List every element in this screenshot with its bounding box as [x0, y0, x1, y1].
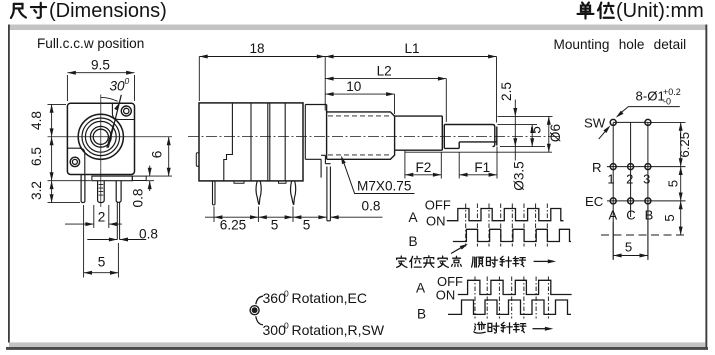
svg-text:0: 0: [284, 289, 289, 299]
bushing thread dashed lines: [328, 115, 390, 117]
mounting grid right vertical: [647, 122, 649, 259]
svg-text:3: 3: [643, 172, 650, 187]
svg-text:R: R: [592, 160, 602, 175]
dim L2: [445, 79, 447, 122]
svg-text:EC: EC: [585, 194, 604, 209]
top row extension: [648, 121, 686, 123]
rotation bullet: [249, 305, 259, 315]
group2 waveform B: [448, 300, 571, 314]
right dims 6.25 / 5 / 5: [680, 122, 682, 235]
svg-text:M7X0.75: M7X0.75: [357, 179, 411, 194]
title 单位(Unit):mm: [578, 3, 614, 19]
svg-text:4.8: 4.8: [29, 111, 44, 130]
mounting grid left vertical: [612, 122, 614, 259]
svg-text:Full.c.c.w position: Full.c.c.w position: [37, 36, 144, 51]
svg-text:5: 5: [625, 240, 632, 255]
group1 detent dash-dot lines: [466, 204, 548, 247]
hole EC B: [645, 198, 651, 204]
shaft section dia 6: [395, 116, 445, 150]
svg-text:2.5: 2.5: [499, 82, 514, 101]
shaft D-flat indicator line: [108, 95, 121, 148]
svg-text:6: 6: [150, 151, 165, 159]
extension lines right of shaft: [498, 116, 553, 146]
mounting grid top row line SW: [613, 121, 648, 123]
svg-text:+0.2: +0.2: [663, 87, 681, 97]
svg-text:F2: F2: [415, 160, 431, 175]
svg-text:18: 18: [249, 41, 264, 56]
dim 0.8 thin pin: [87, 239, 146, 241]
dim F2: [405, 152, 441, 178]
hole R3: [645, 164, 651, 170]
dim 5 shaft end: [531, 125, 533, 147]
dim 0.8 tab thickness: [146, 166, 154, 192]
svg-text:Mounting hole detail: Mounting hole detail: [554, 37, 687, 52]
group2 detent dash-dot lines: [475, 277, 548, 319]
dim 2.5 and dia 3.5 shared line: [514, 100, 516, 161]
svg-text:A: A: [608, 208, 617, 223]
dashed pcb edge line: [601, 234, 686, 236]
pin left: [81, 175, 85, 203]
horizontal centerline: [48, 136, 173, 138]
dim 30 deg arc: [101, 97, 118, 101]
svg-text:Ø3.5: Ø3.5: [512, 161, 527, 190]
hole EC A: [610, 198, 616, 204]
dim 9.5: [67, 75, 134, 101]
svg-text:Rotation,EC: Rotation,EC: [292, 290, 367, 306]
svg-text:0.8: 0.8: [131, 189, 146, 208]
threaded bushing M7: [327, 105, 395, 160]
front body bottom-left lug pad: [68, 148, 85, 174]
side tab right: [132, 176, 146, 180]
svg-text:6.25: 6.25: [220, 217, 246, 232]
hole EC C: [628, 198, 634, 204]
neck top edge: [305, 104, 326, 106]
svg-text:SW: SW: [584, 116, 606, 131]
dim L1: [496, 57, 498, 123]
pin right: [116, 181, 121, 203]
svg-text:8-Ø1: 8-Ø1: [636, 89, 665, 104]
svg-text:5: 5: [271, 217, 279, 232]
svg-text:360: 360: [263, 290, 287, 306]
svg-text:L2: L2: [377, 63, 392, 78]
front body outline: [67, 103, 134, 174]
svg-text:10: 10: [346, 79, 362, 94]
direction arrow counterclockwise: [533, 328, 546, 330]
lug hole top-right: [121, 106, 131, 116]
svg-text:9.5: 9.5: [91, 58, 110, 73]
side body bottom feet: [234, 181, 286, 183]
svg-text:Rotation,R,SW: Rotation,R,SW: [292, 322, 385, 338]
pin center knurled: [98, 181, 105, 203]
text 逆时针转 counterclockwise: [474, 322, 526, 333]
neck bottom edge: [305, 158, 321, 160]
leader arrow detent point: [451, 246, 465, 254]
svg-text:1: 1: [607, 172, 614, 187]
side pin 3 bent: [290, 181, 295, 205]
flat shelf line: [405, 150, 552, 152]
lug hole bottom-left: [70, 157, 79, 166]
group2 waveform A: [458, 280, 572, 294]
side body outline: [199, 103, 303, 181]
dim 2 center pin: [94, 205, 109, 228]
side body internal stepped line: [224, 103, 233, 181]
side pin 2 bent: [256, 181, 261, 205]
svg-text:F1: F1: [474, 160, 490, 175]
svg-text:OFF: OFF: [425, 198, 451, 213]
bottom mounting strip: [92, 176, 132, 181]
dim 4.8 / 6.5 / 3.2 left chain: [48, 104, 92, 202]
front body top-right lug pad: [112, 103, 134, 119]
hole R2: [628, 164, 634, 170]
pin right long thin extension: [117, 202, 119, 239]
svg-text:0.8: 0.8: [362, 198, 381, 213]
mounting bracket leg: [321, 155, 331, 221]
svg-text:Ø6: Ø6: [548, 124, 563, 142]
side body internal vertical lines: [251, 103, 285, 181]
svg-text:5: 5: [303, 217, 311, 232]
svg-text:5: 5: [529, 126, 544, 134]
dim 5 bottom: [84, 205, 119, 278]
dim 0.8 bracket leg: [330, 216, 382, 218]
main centerline dash-dot: [188, 136, 560, 138]
svg-text:A: A: [416, 281, 426, 296]
hole SW2: [645, 119, 651, 125]
svg-text:2: 2: [626, 172, 633, 187]
text 定位安定点: [397, 256, 462, 268]
svg-text:(Unit):mm: (Unit):mm: [616, 0, 704, 22]
svg-text:C: C: [626, 208, 635, 223]
shaft concentric circles: [78, 114, 123, 159]
svg-text:5: 5: [666, 180, 681, 187]
svg-text:300: 300: [263, 322, 287, 338]
svg-text:B: B: [645, 208, 654, 223]
side body right edge second line: [304, 105, 306, 160]
vertical centerline: [100, 95, 102, 208]
svg-text:3.2: 3.2: [29, 181, 44, 200]
svg-text:(Dimensions): (Dimensions): [49, 0, 167, 22]
svg-text:30: 30: [110, 79, 126, 94]
side pin 1: [213, 181, 216, 205]
svg-text:0: 0: [125, 76, 130, 86]
bottom pin dims 6.25 / 5 / 5: [214, 207, 293, 223]
svg-text:L1: L1: [404, 41, 419, 56]
shaft D-flat chord: [107, 124, 114, 148]
svg-text:0: 0: [284, 320, 289, 330]
svg-text:6.25: 6.25: [677, 132, 692, 158]
mounting grid row line EC: [607, 200, 686, 202]
svg-text:2: 2: [98, 210, 106, 225]
direction arrow clockwise: [534, 260, 548, 262]
text 顺时针转 clockwise: [472, 256, 526, 267]
mounting grid middle vertical: [630, 122, 632, 217]
dim 18: [199, 57, 325, 111]
mounting grid row line R: [607, 166, 686, 168]
svg-text:0.8: 0.8: [139, 226, 158, 241]
bracket hooks: [256, 296, 263, 304]
dim dia 6: [548, 116, 550, 152]
svg-text:6.5: 6.5: [29, 147, 44, 166]
title 尺寸(Dimensions): [11, 3, 46, 18]
svg-text:-0: -0: [663, 97, 671, 107]
svg-text:B: B: [409, 234, 418, 249]
svg-text:B: B: [417, 307, 426, 322]
hole SW1: [610, 119, 616, 125]
svg-text:ON: ON: [426, 213, 446, 228]
hole R1: [610, 164, 616, 170]
bottom dim 5: [613, 206, 648, 260]
dim 6 right: [146, 175, 172, 177]
svg-text:5: 5: [98, 255, 106, 270]
group1 waveform B: [453, 229, 571, 241]
svg-text:5: 5: [662, 214, 677, 221]
svg-text:A: A: [409, 210, 419, 225]
dim F1: [459, 147, 497, 179]
label M7X0.75 with leader: [344, 162, 415, 194]
group1 waveform A: [447, 209, 564, 221]
shaft end section: [444, 125, 497, 149]
dim 10: [394, 94, 396, 114]
svg-text:ON: ON: [436, 288, 456, 303]
side lug tab left: [196, 153, 199, 167]
